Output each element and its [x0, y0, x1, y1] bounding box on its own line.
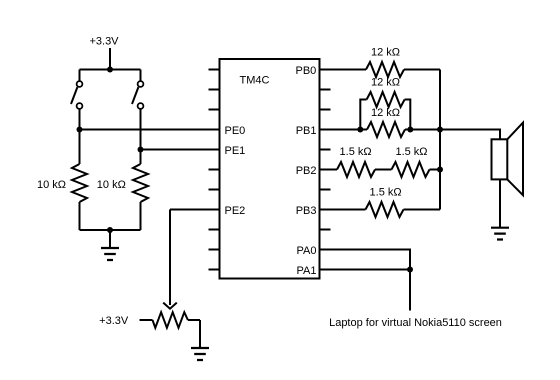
- svg-text:1.5 kΩ: 1.5 kΩ: [370, 187, 402, 199]
- svg-text:PB0: PB0: [296, 65, 317, 77]
- svg-text:+3.3V: +3.3V: [99, 315, 129, 327]
- svg-text:PE2: PE2: [225, 205, 246, 217]
- svg-text:1.5 kΩ: 1.5 kΩ: [340, 146, 372, 158]
- svg-text:PA1: PA1: [297, 265, 317, 277]
- svg-text:10 kΩ: 10 kΩ: [37, 179, 66, 191]
- svg-text:12 kΩ: 12 kΩ: [371, 107, 400, 119]
- svg-text:10 kΩ: 10 kΩ: [97, 179, 126, 191]
- svg-text:PB3: PB3: [296, 205, 317, 217]
- svg-text:PB2: PB2: [296, 165, 317, 177]
- svg-text:PE0: PE0: [225, 125, 246, 137]
- svg-text:PB1: PB1: [296, 125, 317, 137]
- svg-text:+3.3V: +3.3V: [89, 36, 119, 48]
- svg-text:1.5 kΩ: 1.5 kΩ: [395, 146, 427, 158]
- svg-text:12 kΩ: 12 kΩ: [371, 47, 400, 59]
- svg-text:PA0: PA0: [297, 245, 317, 257]
- svg-text:12 kΩ: 12 kΩ: [371, 77, 400, 89]
- svg-text:Laptop for virtual Nokia5110 s: Laptop for virtual Nokia5110 screen: [329, 317, 502, 329]
- svg-text:PE1: PE1: [225, 145, 246, 157]
- svg-text:TM4C: TM4C: [240, 75, 270, 87]
